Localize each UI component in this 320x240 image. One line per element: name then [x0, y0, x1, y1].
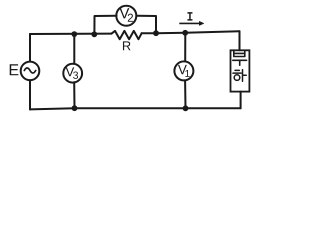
voltmeter V1 circle [174, 61, 193, 80]
node: top wire / V1 branch [182, 30, 188, 36]
voltmeter V3 circle [63, 64, 82, 83]
voltmeter V2 subscript 2 [128, 14, 133, 22]
load box outline [231, 50, 250, 91]
node: top wire / V2 loop right [153, 30, 159, 36]
wire: top horizontal, right of resistor [142, 31, 240, 33]
voltmeter V1 subscript 1 [185, 70, 189, 77]
node: top wire / V2 loop left [91, 31, 97, 37]
voltmeter V2 circle [116, 6, 136, 26]
AC source circle [21, 62, 40, 81]
wire: left vertical with AC source gap [29, 34, 31, 109]
hangul syllable "bu" of load label [233, 51, 247, 65]
voltmeter V3 subscript 3 [73, 71, 78, 78]
label E (source emf) [10, 64, 19, 75]
wire: right vertical above load box [239, 31, 241, 50]
voltmeter V3 letter V [66, 67, 75, 76]
voltmeter V2 letter V [119, 8, 129, 18]
current direction arrow [179, 21, 204, 25]
wire: V3 branch vertical [73, 34, 75, 108]
hangul syllable "ha" of load label [233, 70, 246, 82]
wire: bottom horizontal [30, 108, 241, 109]
AC source sine symbol [24, 68, 35, 73]
node: top wire / V3 branch [71, 31, 77, 37]
wire: V2 parallel loop [94, 16, 156, 35]
voltmeter V1 letter V [178, 65, 187, 74]
label R (resistor value label) [123, 41, 131, 50]
wire: top horizontal, left section [30, 33, 112, 35]
wire: right vertical below load box [240, 92, 242, 109]
node: bottom wire / V3 branch [72, 105, 78, 111]
resistor R (zigzag) [112, 31, 142, 39]
wire: V1 branch vertical [184, 33, 186, 109]
node: bottom wire / V1 branch [183, 105, 189, 111]
label I (current) [188, 13, 192, 20]
